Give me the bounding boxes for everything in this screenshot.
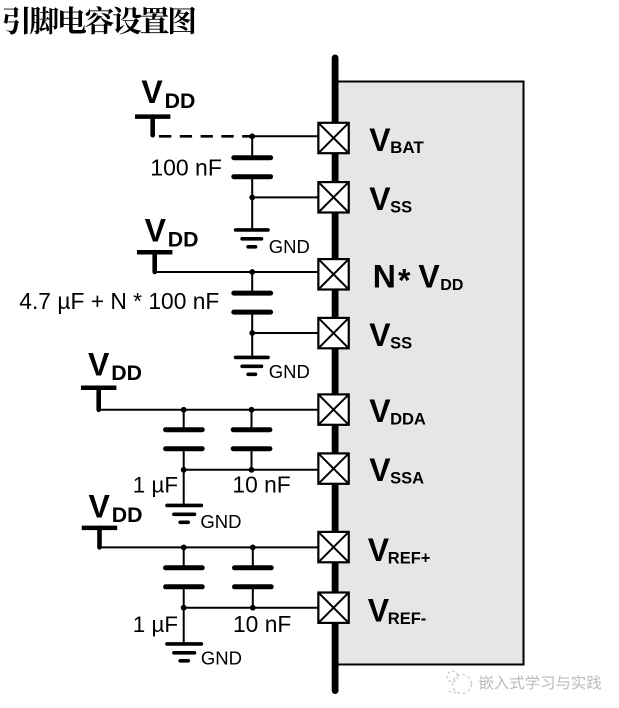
svg-text:V: V xyxy=(369,317,391,353)
wire node K to ground 4 xyxy=(183,608,185,643)
MCU body xyxy=(338,82,524,665)
svg-text:V: V xyxy=(369,181,391,217)
wire VDD4 to VREF+ pin xyxy=(98,546,320,548)
node C junction xyxy=(249,269,255,275)
svg-text:V: V xyxy=(418,259,440,295)
svg-text:10 nF: 10 nF xyxy=(232,472,290,498)
wire node F down to C4 xyxy=(251,410,253,428)
node I junction xyxy=(181,545,187,551)
label VSSA xyxy=(369,452,424,488)
label VREF+ xyxy=(368,532,431,568)
wire node C to N*VDD pin xyxy=(252,271,319,273)
node D junction xyxy=(249,330,255,336)
svg-text:100 nF: 100 nF xyxy=(150,155,222,181)
label VSS (2) xyxy=(369,317,412,353)
power symbol VDD (group 1) xyxy=(135,74,195,135)
svg-text:V: V xyxy=(368,593,390,629)
wire node E down to C3 xyxy=(183,410,185,428)
svg-text:DD: DD xyxy=(440,277,463,294)
svg-text:V: V xyxy=(141,74,163,110)
wire VSSA return xyxy=(184,469,319,471)
wire C2 to node D xyxy=(251,314,253,333)
node J junction xyxy=(250,545,256,551)
svg-text:DDA: DDA xyxy=(390,411,426,429)
pin VSSA pad symbol xyxy=(318,453,348,483)
svg-text:10 nF: 10 nF xyxy=(233,611,291,637)
svg-text:V: V xyxy=(369,122,391,158)
wire dashed VDD to node A xyxy=(159,135,252,138)
capacitor C1 100 nF xyxy=(234,158,271,177)
wire node B to VSS pin xyxy=(252,196,319,198)
ground 3 xyxy=(167,505,201,522)
wire node C down to C2 xyxy=(251,272,253,292)
wire C6 to node L xyxy=(252,588,254,607)
pin bus line xyxy=(332,58,339,691)
ground 2 xyxy=(236,357,268,374)
wire node G to ground 3 xyxy=(183,470,185,505)
wire node D to ground 2 xyxy=(251,333,253,357)
wire C4 to node H xyxy=(251,450,253,470)
svg-text:1 µF: 1 µF xyxy=(133,612,178,637)
node A junction xyxy=(249,133,255,139)
svg-text:DD: DD xyxy=(168,227,199,251)
power symbol VDD (group 4) xyxy=(82,488,143,547)
wire node D to VSS pin 2 xyxy=(252,332,319,334)
watermark text 嵌入式学习与实践 xyxy=(479,675,601,689)
label N*VDD xyxy=(373,259,464,299)
svg-text:SS: SS xyxy=(390,199,412,217)
capacitor C2 4.7 uF + N * 100 nF xyxy=(234,293,271,312)
node E junction xyxy=(181,407,187,413)
wire C5 to node K xyxy=(183,588,185,607)
svg-text:*: * xyxy=(398,262,411,298)
power symbol VDD (group 2) xyxy=(137,213,199,272)
label VSS (1) xyxy=(369,181,412,217)
capacitor C6 10 nF xyxy=(235,568,272,587)
wire node J down to C6 xyxy=(252,547,254,567)
svg-text:N: N xyxy=(373,259,396,295)
svg-text:V: V xyxy=(368,532,390,568)
ground 4 xyxy=(167,644,201,661)
svg-text:REF-: REF- xyxy=(388,610,427,628)
wire node B to ground 1 xyxy=(251,197,253,229)
pin VREF+ pad symbol xyxy=(318,532,348,562)
svg-text:GND: GND xyxy=(269,236,310,257)
pin N*VDD pad symbol xyxy=(318,259,348,289)
node L junction xyxy=(250,605,256,611)
node B junction xyxy=(249,195,255,201)
svg-text:DD: DD xyxy=(112,503,143,527)
capacitor C5 1 uF xyxy=(166,568,203,587)
svg-text:GND: GND xyxy=(201,648,242,669)
pin VDDA pad symbol xyxy=(318,394,348,424)
watermark logo xyxy=(447,671,471,693)
node F junction xyxy=(249,407,255,413)
label VBAT xyxy=(369,122,424,158)
capacitor C3 1 uF xyxy=(166,430,203,449)
pin VBAT pad symbol xyxy=(318,123,348,153)
label VREF- xyxy=(368,593,427,629)
svg-text:GND: GND xyxy=(200,511,241,532)
svg-text:1 µF: 1 µF xyxy=(133,472,178,497)
svg-text:SSA: SSA xyxy=(390,470,424,488)
svg-text:V: V xyxy=(369,393,391,429)
svg-text:DD: DD xyxy=(111,361,142,385)
wire node A to VBAT pin xyxy=(252,135,319,137)
svg-text:DD: DD xyxy=(165,89,196,113)
label VDDA xyxy=(369,393,426,429)
wire node A down to C1 xyxy=(251,136,253,156)
svg-text:V: V xyxy=(369,452,391,488)
capacitor C4 10 nF xyxy=(233,430,270,449)
svg-text:4.7 µF + N * 100 nF: 4.7 µF + N * 100 nF xyxy=(19,288,219,314)
pin VREF- pad symbol xyxy=(318,593,348,623)
node K junction xyxy=(181,605,187,611)
svg-text:GND: GND xyxy=(269,361,310,382)
wire VDD3 to VDDA pin xyxy=(97,409,320,411)
pin VSS (1) pad symbol xyxy=(318,182,348,212)
svg-text:REF+: REF+ xyxy=(388,550,431,568)
svg-text:SS: SS xyxy=(390,334,412,352)
wire node I down to C5 xyxy=(183,547,185,567)
node G junction xyxy=(181,467,187,473)
wire C1 to node B xyxy=(251,178,253,197)
power symbol VDD (group 3) xyxy=(81,346,142,409)
title text 引脚电容设置图 xyxy=(3,6,195,34)
svg-text:V: V xyxy=(88,346,110,382)
wire C3 to node G xyxy=(183,450,185,470)
svg-text:V: V xyxy=(145,213,167,249)
svg-text:V: V xyxy=(89,488,111,524)
wire VDD2 to node C xyxy=(153,271,252,273)
wire VREF- return xyxy=(184,607,319,609)
svg-text:BAT: BAT xyxy=(390,138,424,157)
pin VSS (2) pad symbol xyxy=(318,318,348,348)
ground 1 xyxy=(236,230,268,247)
node H junction xyxy=(249,467,255,473)
